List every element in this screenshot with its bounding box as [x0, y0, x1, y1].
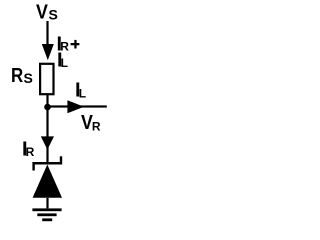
node VS label	[36, 2, 58, 24]
label IR + (source current)	[57, 34, 80, 56]
svg-text:S: S	[49, 7, 58, 23]
node junction dot	[44, 104, 51, 111]
zener diode D1 cathode bar with bent ends	[32, 156, 62, 170]
svg-text:V: V	[36, 2, 48, 24]
ground	[32, 208, 61, 221]
wire RS bottom to node	[46, 95, 48, 106]
svg-text:S: S	[24, 70, 33, 86]
svg-text:R: R	[92, 119, 101, 133]
resistor RS	[40, 64, 53, 94]
wire from VS down to resistor RS	[46, 21, 48, 49]
svg-text:R: R	[11, 65, 24, 87]
current arrow IL (arrowhead right)	[67, 100, 84, 113]
label IR (zener current)	[22, 139, 35, 161]
zener diode D1 anode triangle	[33, 165, 62, 198]
wire node to VR (horizontal)	[48, 105, 107, 107]
node VR label	[81, 112, 101, 134]
svg-text:L: L	[61, 56, 68, 70]
current arrow into RS (arrowhead down)	[42, 44, 54, 60]
current arrow IR (arrowhead down)	[41, 136, 54, 149]
wire zener to ground	[46, 198, 48, 209]
wire node down to zener	[46, 108, 48, 163]
label RS	[11, 65, 33, 87]
label IL (load current)	[75, 80, 86, 102]
label IL (second line of source current)	[57, 50, 68, 72]
svg-text:L: L	[79, 87, 86, 101]
svg-text:R: R	[26, 145, 35, 159]
